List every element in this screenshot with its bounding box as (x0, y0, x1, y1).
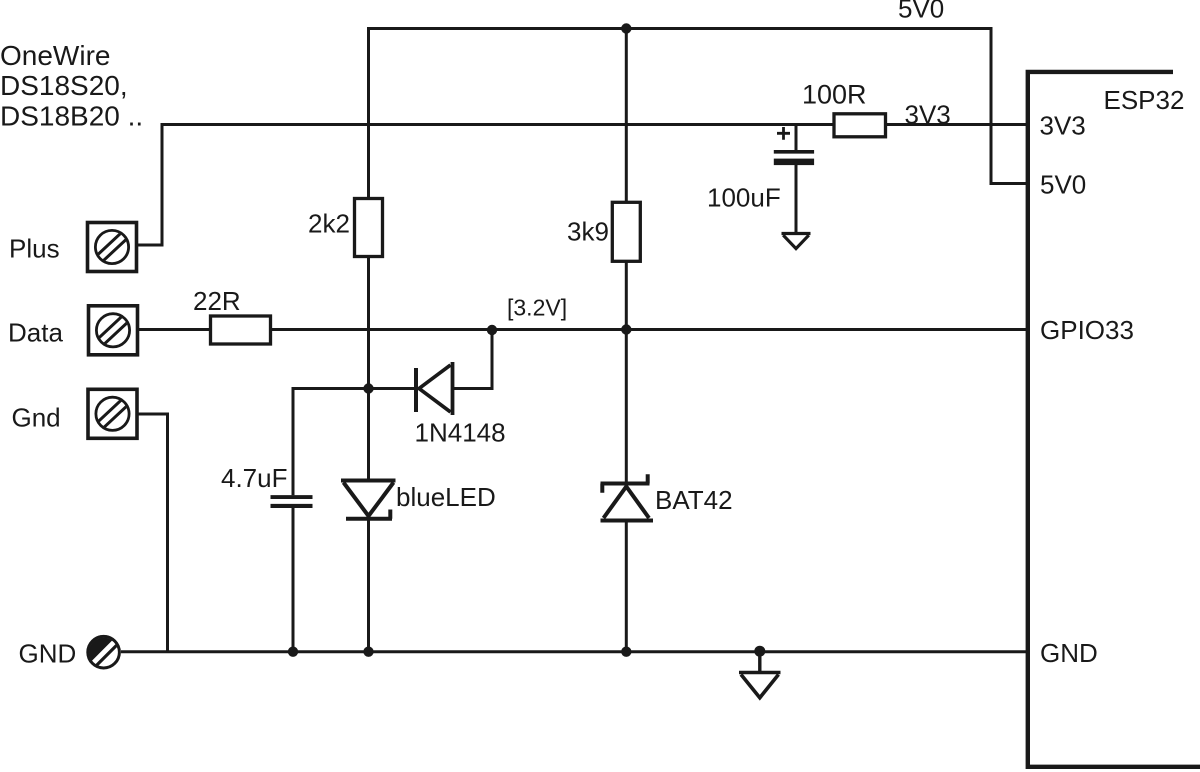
capacitor C1 polarity plus sign (777, 127, 790, 140)
svg-text:100R: 100R (802, 80, 867, 110)
capacitor C1 100uF top plate (774, 150, 814, 154)
svg-text:5V0: 5V0 (898, 0, 944, 24)
svg-text:1N4148: 1N4148 (415, 418, 506, 448)
svg-text:2k2: 2k2 (308, 209, 350, 239)
node junction dot 5V0/3k9 (621, 23, 631, 33)
wire 4.7uF top to 1N4148 cathode node (293, 389, 414, 496)
terminal X2 Data screw terminal (89, 306, 138, 355)
wire 100uF bottom to ground symbol (795, 165, 798, 234)
node junction dot LED column / 1N4148 cathode / 4.7uF (363, 383, 373, 393)
wire BAT42 anode down to GND rail (625, 521, 628, 652)
svg-text:100uF: 100uF (707, 183, 781, 213)
wire Plus terminal to 3V3 rail (137, 125, 834, 246)
svg-text:DS18B20 ..: DS18B20 .. (0, 101, 143, 132)
svg-text:Plus: Plus (9, 234, 60, 264)
resistor R1 2k2 body (355, 199, 383, 257)
wire blueLED cathode down to GND rail (367, 521, 370, 652)
terminal X3 Gnd screw terminal (88, 389, 137, 438)
svg-text:3V3: 3V3 (905, 100, 951, 130)
diode D1 1N4148 cathode bar (414, 368, 418, 412)
svg-text:4.7uF: 4.7uF (221, 463, 288, 493)
svg-text:GND: GND (1040, 638, 1098, 668)
node junction dot GND/4.7uF (288, 647, 298, 657)
wire 4.7uF bottom to GND rail (292, 508, 295, 652)
ground symbol on GND rail (open triangle) (739, 671, 781, 674)
svg-text:3k9: 3k9 (567, 217, 609, 247)
wire 1N4148 anode to data line (453, 331, 493, 389)
capacitor C2 4.7uF bottom plate (271, 504, 313, 508)
wire Gnd terminal down to GND rail (137, 414, 168, 651)
diode D3 BAT42 schottky cathode bar with hooks (601, 474, 650, 493)
diode D1 1N4148 triangle (pointing left) (451, 362, 455, 415)
wire ground symbol stem on GND rail (758, 652, 761, 673)
capacitor C1 100uF bottom plate (polarized thick) (774, 159, 814, 166)
svg-text:Data: Data (8, 318, 63, 348)
resistor R4 100R body (834, 114, 886, 137)
svg-text:5V0: 5V0 (1040, 170, 1086, 200)
svg-text:GPIO33: GPIO33 (1040, 315, 1134, 345)
wire 3k9 column top segment (625, 29, 628, 203)
wire Data terminal to 22R (138, 328, 211, 331)
ground symbol under 100uF (open triangle) (782, 232, 811, 235)
node junction dot GND/blueLED column (363, 647, 373, 657)
wire 5V0 net: top rail from 2k2 column to ESP32 5V0 pin (369, 29, 1028, 199)
wire 3V3 rail right of 100R to ESP32 3V3 pin (886, 123, 1028, 126)
LED D2 blueLED cathode bar with right hook (346, 510, 392, 519)
LED D2 blueLED triangle (pointing down) (341, 479, 396, 483)
diode D3 BAT42 triangle (pointing up) (601, 519, 654, 523)
capacitor C1 100uF stub from 3V3 rail (795, 125, 798, 151)
GND reference symbol (half-filled circle) (80, 629, 119, 668)
svg-text:DS18S20,: DS18S20, (0, 70, 128, 101)
svg-text:Gnd: Gnd (12, 403, 61, 433)
wire 2k2 column middle segment (367, 257, 370, 481)
svg-text:[3.2V]: [3.2V] (507, 295, 567, 321)
svg-text:BAT42: BAT42 (655, 485, 733, 515)
terminal X1 Plus screw terminal (88, 223, 137, 272)
svg-text:ESP32: ESP32 (1104, 85, 1185, 115)
node junction dot data/3k9 (621, 324, 631, 334)
node junction dot GND/ground symbol stem (754, 646, 765, 657)
svg-text:GND: GND (19, 638, 77, 668)
IC U1 ESP32 outline (1028, 72, 1200, 767)
capacitor C2 4.7uF top plate (271, 495, 313, 499)
resistor R3 22R body (211, 316, 271, 344)
node junction dot data/1N4148 [3.2V] (487, 325, 497, 335)
node junction dot GND/BAT42 column (621, 647, 631, 657)
wire GND rail (121, 650, 1027, 653)
svg-text:3V3: 3V3 (1040, 111, 1086, 141)
wire 3k9 column middle segment (625, 261, 628, 481)
svg-text:OneWire: OneWire (0, 40, 110, 71)
svg-text:blueLED: blueLED (396, 482, 496, 512)
svg-text:22R: 22R (193, 286, 241, 316)
resistor R2 3k9 body (612, 202, 640, 261)
wire Data line from 22R to ESP32 GPIO33 (271, 328, 1028, 331)
